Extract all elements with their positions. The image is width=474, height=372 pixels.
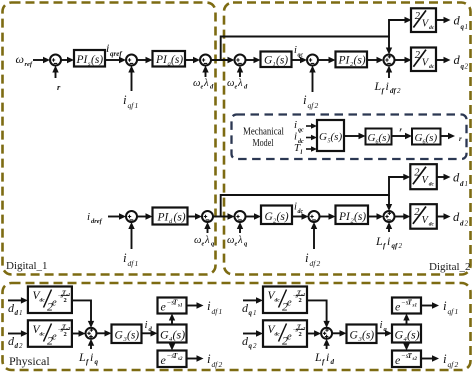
svg-text:d: d — [453, 171, 460, 185]
block PId(s) — [153, 208, 188, 226]
wire S9 to G2 — [246, 216, 256, 218]
feedback arrow wr into S1 — [55, 69, 57, 78]
idc arrow into G5 — [306, 137, 312, 139]
block G4(s) left — [158, 325, 187, 344]
svg-text:d: d — [460, 220, 464, 228]
node dq1 label — [242, 301, 257, 317]
node dq2 label — [242, 334, 257, 350]
svg-text:2: 2 — [415, 50, 421, 61]
svg-text:dc: dc — [429, 25, 435, 31]
input arrow dd1 — [8, 299, 22, 301]
svg-text:qf: qf — [448, 360, 455, 369]
node Lf iq label — [78, 350, 99, 366]
svg-text:λ: λ — [237, 78, 243, 89]
wire S13 to G3 right — [332, 332, 340, 334]
svg-text:r: r — [459, 135, 462, 143]
svg-text:dc: dc — [40, 298, 46, 304]
wire PI2q to S6 — [367, 59, 378, 61]
summing junction S10 — [309, 211, 320, 222]
svg-text:i: i — [326, 350, 329, 364]
summing junction S9 — [235, 211, 246, 222]
svg-text:i: i — [443, 298, 447, 313]
wire S10 to PI2d — [320, 216, 330, 218]
svg-text:Digital_1: Digital_1 — [6, 260, 48, 272]
svg-text:G: G — [350, 330, 359, 342]
wire S1 to PIs — [61, 59, 68, 61]
node weld label (Digital_2) — [227, 78, 248, 91]
svg-text:d: d — [454, 14, 461, 28]
svg-text:(s): (s) — [354, 211, 366, 223]
node idref label — [87, 211, 103, 225]
block delay e-sTs1 left — [158, 298, 187, 314]
svg-text:2: 2 — [219, 360, 223, 369]
svg-text:(s): (s) — [426, 132, 438, 144]
svg-text:dc: dc — [40, 332, 46, 338]
svg-text:qf: qf — [308, 101, 315, 110]
input Lf idf2 arrow — [388, 69, 390, 78]
block 2/Vdc (q1) — [411, 8, 436, 32]
svg-text:(s): (s) — [362, 330, 374, 342]
summing junction S5 — [307, 55, 318, 66]
block PI2(s) d — [336, 206, 369, 225]
svg-text:qf: qf — [392, 242, 399, 250]
wire B2 out to S13 left — [307, 333, 316, 335]
arrow G4 down to delay2 right — [406, 343, 408, 348]
svg-text:dc: dc — [429, 182, 435, 188]
svg-text:i: i — [90, 350, 93, 364]
svg-text:i: i — [87, 211, 90, 223]
svg-text:G: G — [160, 328, 169, 342]
svg-text:2: 2 — [19, 342, 23, 350]
svg-text:q: q — [95, 358, 99, 366]
wire S8 to S9 with tap junction — [213, 216, 229, 218]
wire G3 to G4 left — [142, 332, 152, 334]
wire S6 to 2/Vdc q2 — [395, 59, 406, 61]
svg-text:(s): (s) — [379, 132, 391, 144]
summing junction S2 — [126, 55, 137, 66]
node dd2 label — [453, 210, 469, 228]
svg-text:2: 2 — [315, 101, 319, 110]
arrow G4 up to delay1 right — [406, 317, 408, 325]
block 2/Vdc (d1) — [410, 164, 437, 189]
wire PI2d to S11 — [368, 216, 378, 218]
node dq1 label — [454, 14, 469, 32]
node idf2 out label — [207, 351, 223, 369]
svg-text:PI: PI — [76, 54, 89, 66]
wire S2 to PIq — [137, 59, 147, 61]
wire G1 to S5 — [292, 59, 302, 61]
block G1(s) — [261, 52, 292, 69]
svg-text:2: 2 — [465, 63, 469, 71]
node welq label (Digital_1) — [194, 235, 215, 248]
output arrow iqf2 — [421, 358, 433, 360]
svg-text:G: G — [115, 330, 124, 342]
svg-text:i: i — [294, 131, 297, 143]
svg-text:i: i — [145, 319, 148, 331]
block 2/Vdc (q2) — [411, 48, 436, 72]
node Lf idf2 label — [374, 79, 402, 95]
svg-text:2: 2 — [415, 11, 421, 22]
node Lf iqf2 label — [375, 234, 403, 250]
svg-text:i: i — [387, 234, 390, 248]
input weld arrow into S3 — [205, 69, 207, 77]
svg-text:G: G — [319, 131, 327, 143]
svg-text:i: i — [123, 250, 127, 265]
svg-text:Digital_2: Digital_2 — [429, 261, 471, 273]
svg-text:s2: s2 — [412, 357, 418, 362]
node dd1 label — [453, 171, 468, 189]
svg-text:d: d — [331, 358, 335, 366]
svg-text:df: df — [390, 87, 397, 95]
svg-text:ω: ω — [193, 78, 200, 89]
iqc arrow into G5 — [306, 125, 312, 127]
node iq label — [380, 319, 388, 333]
svg-text:ω: ω — [227, 78, 234, 89]
feedforward branch down into S6 — [388, 37, 390, 51]
svg-text:(s): (s) — [127, 330, 139, 342]
wire G6a to G6b with tiny r label — [392, 135, 407, 137]
svg-text:ω: ω — [227, 235, 234, 246]
svg-text:Physical: Physical — [9, 354, 50, 368]
input idf2 arrow — [313, 226, 315, 250]
svg-text:1: 1 — [465, 23, 469, 31]
summing junction S7 — [126, 211, 137, 222]
node dq2 label — [454, 53, 469, 71]
summing junction S6 — [384, 55, 395, 66]
wire PId to S8 — [188, 216, 197, 218]
arrow G4 down to delay2 — [171, 343, 173, 348]
feedforward wire up and across (d) — [221, 177, 404, 217]
node idf1 out label — [207, 298, 222, 316]
svg-text:2: 2 — [299, 331, 302, 338]
svg-text:(s): (s) — [354, 55, 366, 67]
svg-text:q: q — [249, 309, 253, 317]
wire G5 to G6a — [344, 135, 360, 137]
svg-text:2: 2 — [397, 87, 401, 95]
wire A2 out to S12 left — [72, 333, 80, 335]
output arrow of mechanical model — [441, 135, 450, 137]
svg-text:s2: s2 — [177, 357, 183, 362]
svg-text:2: 2 — [465, 220, 469, 228]
svg-text:1: 1 — [465, 180, 469, 188]
svg-text:d: d — [15, 309, 19, 317]
node idc label — [294, 202, 304, 216]
Digital_1 dashed box — [3, 3, 216, 275]
svg-text:λ: λ — [237, 235, 243, 246]
node iqc label — [294, 45, 304, 59]
block G6(s) b — [412, 129, 441, 146]
block G3(s) left — [112, 325, 142, 344]
svg-text:2: 2 — [253, 342, 257, 350]
svg-text:qref: qref — [110, 50, 122, 58]
output arrow dd1 — [437, 176, 445, 178]
wire S3 to S4 with tap junction — [211, 59, 229, 61]
svg-text:(s): (s) — [277, 211, 289, 223]
svg-text:i: i — [380, 319, 383, 331]
svg-text:i: i — [305, 250, 309, 265]
wire G2 to S10 — [292, 216, 303, 218]
svg-text:i: i — [294, 119, 297, 131]
svg-text:λ: λ — [203, 78, 209, 89]
svg-text:λ: λ — [204, 235, 210, 246]
block delay e-sTs1 right — [392, 298, 421, 314]
summing junction S13 — [321, 328, 332, 339]
output arrow dq2 — [436, 59, 445, 61]
svg-text:e: e — [52, 298, 57, 309]
svg-text:2: 2 — [299, 297, 302, 304]
input Lf id arrow — [326, 342, 328, 349]
svg-text:d: d — [454, 53, 461, 67]
block G5(s) — [317, 120, 344, 151]
node iqf2 label — [303, 92, 319, 110]
svg-text:2: 2 — [455, 360, 459, 369]
summing junction S4 — [235, 55, 246, 66]
arrow G4 up to delay1 — [171, 317, 173, 325]
wire S7 to PId — [137, 216, 147, 218]
output arrow iqf1 — [421, 305, 433, 307]
svg-text:d: d — [460, 180, 464, 188]
node dd2 label — [8, 334, 23, 350]
wire G3 to G4 right — [377, 332, 387, 334]
svg-text:df: df — [212, 307, 219, 316]
block G6(s) a — [366, 129, 392, 146]
output arrow idf1 — [187, 305, 198, 307]
node welq label (Digital_2) — [227, 235, 248, 248]
svg-text:qc: qc — [298, 128, 304, 134]
svg-text:L: L — [375, 234, 383, 248]
svg-text:Mechanical: Mechanical — [243, 127, 284, 138]
svg-text:i: i — [106, 41, 109, 55]
svg-text:L: L — [314, 350, 322, 364]
svg-text:L: L — [78, 350, 86, 364]
wire S12 to G3 — [97, 332, 106, 334]
svg-text:i: i — [386, 79, 389, 93]
node id label — [145, 319, 153, 333]
svg-text:i: i — [207, 298, 211, 313]
svg-text:Model: Model — [253, 138, 274, 149]
svg-text:(s): (s) — [174, 212, 186, 224]
svg-text:(s): (s) — [331, 131, 343, 143]
output arrow idf2 — [187, 358, 198, 360]
node dd1 label — [8, 301, 23, 317]
wire PIq to S3 — [185, 59, 194, 61]
svg-text:1: 1 — [455, 307, 459, 316]
svg-text:i: i — [303, 92, 307, 107]
block delay e-sTs2 left — [158, 351, 187, 368]
svg-text:(s): (s) — [171, 54, 183, 66]
summing junction S8 — [202, 211, 213, 222]
summing junction S3 — [200, 55, 211, 66]
svg-text:e: e — [287, 332, 292, 343]
feedforward wire up and across (q) — [221, 20, 405, 60]
svg-text:e: e — [52, 332, 57, 343]
input arrow dq1 — [243, 299, 257, 301]
block PIq(s) — [153, 51, 186, 68]
block G2(s) — [261, 206, 292, 225]
wire B1 out to S13 top — [307, 300, 327, 322]
node iqc input label — [294, 119, 304, 134]
input arrow dq2 — [243, 333, 257, 335]
block Vdc/2 delay Ts1 (A1) — [28, 287, 72, 314]
output arrow dd2 — [437, 216, 445, 218]
input weld arrow into S4 — [239, 69, 241, 77]
node idf1 label — [123, 250, 138, 268]
Mechanical Model blue dashed box — [232, 115, 467, 160]
input welq arrow into S8 — [207, 226, 209, 234]
node idc input label — [294, 131, 304, 146]
svg-text:dc: dc — [429, 64, 435, 70]
svg-text:1: 1 — [135, 259, 139, 268]
svg-text:qf: qf — [448, 307, 455, 316]
svg-text:dc: dc — [275, 332, 281, 338]
svg-text:1: 1 — [135, 101, 139, 110]
node iqf1 out label — [443, 298, 458, 316]
svg-text:dref: dref — [91, 218, 103, 225]
node iqref label — [106, 41, 122, 58]
input Lf iq arrow — [90, 342, 92, 349]
svg-text:PI: PI — [338, 55, 351, 67]
svg-text:qf: qf — [128, 101, 135, 110]
block G4(s) right — [392, 325, 421, 344]
svg-text:d: d — [15, 342, 19, 350]
node weld label (Digital_1) — [193, 78, 214, 91]
svg-text:(s): (s) — [91, 54, 103, 66]
svg-text:df: df — [128, 259, 135, 268]
input iqf2 arrow — [312, 69, 314, 92]
block PI2(s) q — [336, 52, 368, 69]
block G3(s) right — [347, 325, 377, 344]
svg-text:df: df — [212, 360, 219, 369]
Digital_2 dashed box — [224, 3, 471, 275]
svg-text:G: G — [395, 328, 404, 342]
svg-text:i: i — [443, 351, 447, 366]
svg-text:1: 1 — [253, 309, 257, 317]
input welq arrow into S9 — [239, 226, 241, 234]
svg-text:dc: dc — [429, 221, 435, 227]
svg-text:2: 2 — [64, 331, 67, 338]
svg-text:(s): (s) — [407, 328, 420, 342]
node iqf2 out label — [443, 351, 459, 369]
svg-text:(s): (s) — [276, 55, 288, 67]
input Lf iqf2 arrow — [388, 226, 390, 233]
svg-text:2: 2 — [64, 297, 67, 304]
svg-text:ω: ω — [16, 52, 24, 66]
wire S4 to G1 — [246, 59, 255, 61]
summing junction S12 — [86, 328, 97, 339]
wire idref to S7 — [108, 216, 120, 218]
input idf1 arrow — [131, 226, 133, 250]
svg-text:PI: PI — [155, 54, 168, 66]
svg-text:d: d — [453, 210, 460, 224]
svg-text:e: e — [287, 298, 292, 309]
svg-text:1: 1 — [19, 309, 23, 317]
block 2/Vdc (d2) — [410, 204, 437, 229]
wire S5 to PI2q — [318, 59, 330, 61]
wire wref to S1 — [33, 59, 44, 61]
input arrow dd2 — [8, 333, 22, 335]
svg-text:PI: PI — [157, 212, 170, 224]
svg-text:q: q — [249, 342, 253, 350]
node Lf id label — [314, 350, 335, 366]
block Vdc/2 delay Ts2 (A2) — [28, 320, 72, 347]
svg-text:L: L — [374, 79, 382, 93]
block Vdc/2 delay Ts1 (B1) — [263, 287, 307, 314]
wire PIs to S2 — [105, 59, 120, 61]
svg-text:2: 2 — [317, 259, 321, 268]
block Vdc/2 delay Ts2 (B2) — [263, 320, 307, 347]
svg-text:ref: ref — [25, 61, 33, 68]
svg-text:2: 2 — [414, 207, 420, 218]
svg-text:s1: s1 — [177, 304, 182, 309]
svg-text:1: 1 — [219, 307, 223, 316]
svg-text:df: df — [310, 259, 317, 268]
svg-text:2: 2 — [414, 167, 420, 178]
wire S11 to 2/Vdc d2 — [395, 216, 405, 218]
svg-text:(s): (s) — [173, 328, 186, 342]
wire A1 out to S12 top — [72, 300, 91, 322]
svg-text:PI: PI — [338, 211, 351, 223]
svg-text:i: i — [207, 351, 211, 366]
Physical dashed box — [3, 283, 471, 370]
output arrow dq1 — [435, 19, 445, 21]
block delay e-sTs2 right — [392, 351, 421, 368]
feedforward branch down into S11 — [388, 195, 390, 207]
svg-text:G: G — [368, 132, 376, 144]
svg-text:ω: ω — [194, 235, 201, 246]
input iqf1 arrow — [131, 69, 133, 91]
Tl arrow into G5 — [306, 148, 312, 150]
node Tl input label — [294, 142, 303, 156]
svg-text:2: 2 — [399, 242, 403, 250]
summing junction S11 — [384, 211, 395, 222]
svg-text:s1: s1 — [412, 304, 417, 309]
svg-text:G: G — [415, 132, 423, 144]
svg-text:dc: dc — [275, 298, 281, 304]
node iqf1 label — [123, 92, 138, 110]
block PIs(s) — [74, 50, 105, 68]
node wref label — [16, 52, 33, 68]
node idf2 label — [305, 250, 321, 268]
summing junction S1 — [50, 55, 61, 66]
svg-text:i: i — [123, 92, 127, 107]
